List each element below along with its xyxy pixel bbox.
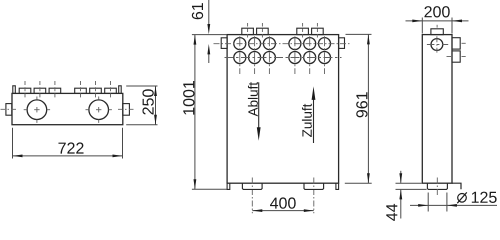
stub 3 on top <box>49 88 61 93</box>
label 722 <box>58 142 83 153</box>
label 400 <box>270 197 296 208</box>
Zuluft flow arrow <box>302 86 315 143</box>
circle A crosshair <box>24 109 27 111</box>
left end tab on top <box>13 86 16 94</box>
bracket dashes <box>462 42 466 44</box>
left side stub <box>6 104 12 116</box>
dimension line <box>367 34 369 183</box>
bottom extension line <box>192 188 227 190</box>
top stub center lines <box>247 23 249 38</box>
right bracket lower <box>452 51 460 62</box>
circle connector B <box>89 100 109 120</box>
Abluft flow arrow <box>248 82 261 141</box>
top stub 3 <box>297 28 309 34</box>
label 200 <box>424 6 449 17</box>
main body outline <box>227 35 339 184</box>
foot center line left <box>251 178 253 214</box>
stub 2 on top <box>34 88 46 93</box>
body outline <box>12 93 123 124</box>
stub 4 on top <box>75 88 87 93</box>
circle connector <box>431 39 443 51</box>
circle horizontal center line <box>427 44 448 46</box>
top stub 1 <box>242 28 254 34</box>
top stub 4 <box>312 28 324 34</box>
right end tab on top <box>119 86 122 94</box>
circle center lines <box>214 23 352 213</box>
side stub center line left <box>1 108 19 110</box>
row 1 center line <box>214 43 352 45</box>
label 125 <box>472 192 497 203</box>
dimension diameter 125 <box>410 193 497 212</box>
dimension 1001 <box>192 35 227 190</box>
dimension 250 <box>126 86 157 125</box>
row 2 center line <box>225 57 342 59</box>
stub 5 on top <box>90 88 102 93</box>
label 250 <box>142 89 153 114</box>
top stub 2 <box>257 28 269 34</box>
foot center line right <box>313 178 315 214</box>
top extension line <box>192 34 227 36</box>
side view center lines <box>427 25 466 197</box>
foot right <box>304 183 324 189</box>
stub 6 on top <box>105 88 117 93</box>
top extension line <box>346 33 372 35</box>
stub 1 on top <box>19 88 31 93</box>
dimension 61 <box>208 0 210 63</box>
bottom corner tab right <box>336 183 339 189</box>
center lines of left view <box>1 81 135 123</box>
dimension 44 <box>396 171 427 219</box>
top stub <box>431 29 443 35</box>
bottom corner tab left <box>227 183 230 189</box>
dimension 200 <box>406 18 469 34</box>
circle connector A <box>27 100 47 120</box>
connector circles grid <box>234 38 331 64</box>
bottom right L flange <box>452 183 461 189</box>
left side tab <box>221 38 227 49</box>
diameter symbol <box>457 192 467 203</box>
stub center lines <box>24 81 26 99</box>
right side tab <box>339 38 345 49</box>
bottom extension line <box>345 182 372 184</box>
dimension 961 <box>345 34 372 183</box>
foot left <box>242 183 262 189</box>
dimension line <box>194 35 196 190</box>
dimension 722 <box>13 128 123 159</box>
right side stub <box>123 104 130 116</box>
side stub center line right <box>118 108 135 110</box>
label 44 <box>386 204 397 221</box>
label 1001 <box>183 81 194 115</box>
side body outline <box>422 35 452 184</box>
right bracket upper <box>452 38 460 49</box>
label 961 <box>356 92 367 117</box>
side foot <box>427 183 447 189</box>
label 61 <box>192 3 203 19</box>
dimension 400 <box>252 210 313 212</box>
circle B crosshair <box>86 109 89 111</box>
vertical center line <box>436 25 438 28</box>
column center lines <box>239 36 241 74</box>
